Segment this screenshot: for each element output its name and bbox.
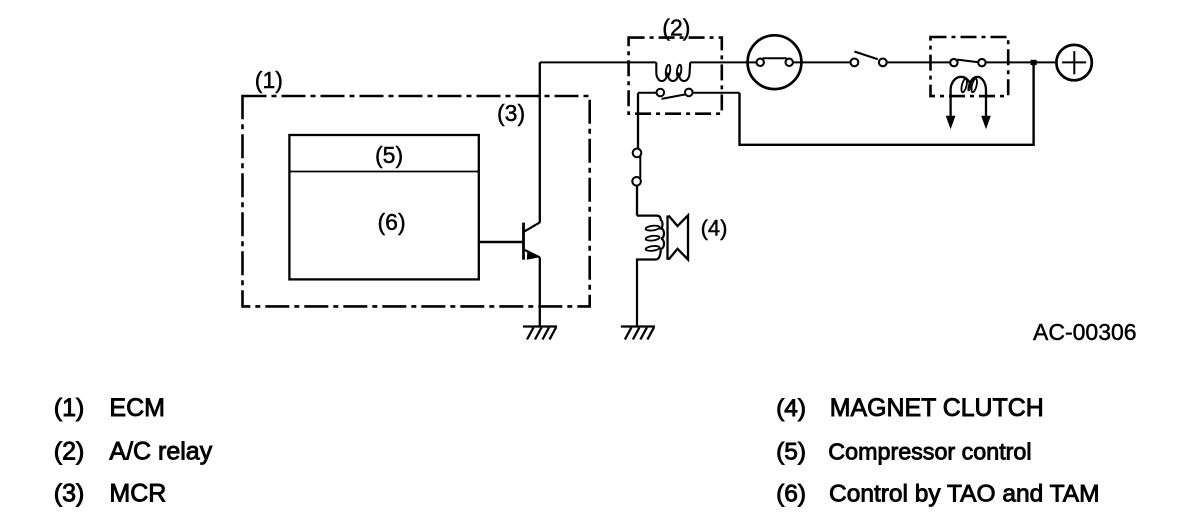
svg-text:MAGNET CLUTCH: MAGNET CLUTCH — [830, 394, 1044, 422]
svg-text:ECM: ECM — [109, 394, 165, 422]
svg-text:(3): (3) — [54, 480, 85, 508]
svg-text:(5): (5) — [375, 142, 403, 168]
svg-text:(4): (4) — [776, 395, 806, 422]
svg-text:(5): (5) — [776, 438, 806, 465]
svg-text:(2): (2) — [54, 437, 85, 465]
svg-text:(4): (4) — [701, 216, 728, 241]
svg-text:(1): (1) — [54, 394, 85, 422]
svg-text:AC-00306: AC-00306 — [1033, 319, 1137, 345]
svg-text:(6): (6) — [378, 209, 406, 235]
svg-text:A/C relay: A/C relay — [109, 437, 212, 465]
svg-text:(1): (1) — [255, 67, 283, 93]
svg-text:MCR: MCR — [109, 480, 166, 508]
svg-text:(3): (3) — [497, 100, 525, 126]
svg-text:(2): (2) — [662, 15, 690, 41]
svg-text:(6): (6) — [776, 481, 806, 508]
svg-text:Compressor control: Compressor control — [828, 438, 1031, 464]
svg-text:Control by TAO and TAM: Control by TAO and TAM — [829, 481, 1100, 508]
